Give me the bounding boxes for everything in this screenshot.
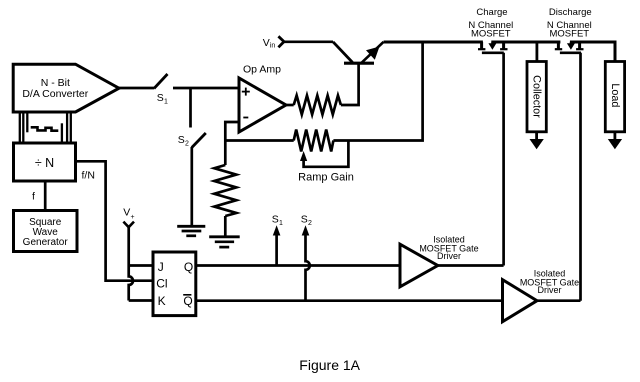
wire to J input — [129, 264, 153, 267]
svg-text:Discharge: Discharge — [549, 7, 592, 18]
transistor Q1 — [333, 42, 384, 63]
wire from rail down to load box — [614, 41, 617, 62]
wire from Vin to transistor — [284, 40, 333, 43]
svg-text:÷ N: ÷ N — [35, 156, 54, 170]
control arrow S1 — [272, 213, 283, 265]
ground below R1 — [209, 237, 240, 247]
wire from S2 to ground — [190, 147, 193, 226]
wire from op-amp inverting input down to resistor node — [225, 122, 239, 165]
wire to K input — [129, 299, 153, 302]
svg-text:MOSFET: MOSFET — [550, 29, 590, 40]
svg-text:K: K — [158, 294, 166, 308]
svg-text:Cl: Cl — [156, 277, 167, 291]
bus wires between D/A converter and divider — [20, 112, 71, 143]
svg-text:Load: Load — [609, 83, 621, 107]
wire from S1 to op-amp non-inverting input — [173, 87, 239, 90]
isolated MOSFET gate driver 1 — [400, 235, 479, 287]
wire from Q output to gate driver 1 — [196, 264, 400, 267]
svg-text:Driver: Driver — [437, 251, 461, 261]
resistor R2 — [294, 96, 341, 115]
wire from Q-bar output to gate driver 2 — [196, 299, 503, 302]
svg-text:Figure 1A: Figure 1A — [299, 357, 360, 373]
collector box — [527, 62, 546, 132]
switch S2 — [178, 133, 206, 148]
label charge N channel MOSFET — [468, 7, 513, 39]
label discharge N channel MOSFET — [547, 7, 592, 39]
square wave generator block — [14, 211, 78, 252]
svg-text:f: f — [32, 191, 35, 203]
JK flip-flop U3 — [153, 252, 196, 316]
wire from rail down to collector box — [536, 42, 539, 62]
svg-text:Q: Q — [183, 294, 192, 308]
ground arrow below load — [608, 132, 622, 149]
V+ input connector — [123, 222, 134, 228]
divider block divide-by-N — [14, 143, 76, 181]
wire from V+ down to J and K inputs with hop over clock wire — [129, 227, 133, 301]
wire from R2 to transistor base — [341, 65, 359, 106]
wire from node to switch S2 — [189, 88, 192, 128]
svg-text:1: 1 — [279, 220, 283, 227]
charge MOSFET M1 — [478, 42, 508, 53]
Vin input connector chevron — [278, 36, 284, 47]
top rail from discharge MOSFET to load — [570, 41, 615, 44]
wire from discharge MOSFET gate down to driver 2 output — [579, 53, 582, 301]
svg-text:Op Amp: Op Amp — [243, 64, 281, 76]
svg-text:N - Bit: N - Bit — [41, 77, 70, 89]
top rail from transistor to charge MOSFET — [384, 41, 483, 44]
svg-text:in: in — [270, 43, 276, 50]
bus continuation squiggle — [31, 127, 59, 130]
svg-text:S: S — [272, 213, 279, 225]
svg-text:Generator: Generator — [23, 237, 69, 248]
svg-text:S: S — [301, 213, 308, 225]
D/A converter block U1 — [13, 64, 119, 112]
load box — [605, 62, 624, 132]
wire from driver 1 output to charge gate line — [438, 264, 504, 267]
switch S1 — [154, 74, 168, 105]
ground arrow below collector — [530, 132, 544, 149]
svg-text:f/N: f/N — [82, 170, 95, 182]
svg-text:J: J — [158, 260, 164, 274]
svg-text:S: S — [157, 92, 164, 104]
svg-text:V: V — [263, 37, 270, 49]
svg-text:S: S — [178, 134, 185, 146]
svg-text:+: + — [131, 214, 135, 221]
wire from R1 to ground — [224, 216, 227, 236]
svg-text:Q: Q — [184, 260, 193, 274]
top rail between MOSFETs — [491, 41, 560, 44]
svg-text:V: V — [123, 206, 130, 218]
svg-text:2: 2 — [185, 141, 189, 148]
wire f/N from divider to flip-flop clock — [76, 161, 154, 280]
potentiometer ramp gain — [294, 130, 354, 184]
wire from D/A output to switch S1 — [119, 87, 154, 90]
label V+ — [123, 206, 134, 221]
svg-text:2: 2 — [308, 220, 312, 227]
Vin label — [263, 37, 276, 50]
svg-text:MOSFET: MOSFET — [471, 29, 511, 40]
wire from inverting node to ramp gain potentiometer — [225, 139, 293, 142]
ground below S2 — [177, 226, 205, 236]
wire from charge MOSFET gate down to driver 1 output — [502, 53, 505, 266]
wire feedback from ramp gain to output rail — [333, 44, 422, 141]
svg-text:D/A Converter: D/A Converter — [22, 88, 88, 100]
isolated MOSFET gate driver 2 — [503, 269, 580, 322]
wire from op-amp output to resistor R2 — [286, 104, 294, 107]
svg-text:Charge: Charge — [476, 7, 507, 18]
svg-text:Driver: Driver — [538, 285, 562, 295]
wire f from generator to divider — [44, 181, 47, 211]
svg-text:1: 1 — [164, 98, 168, 105]
svg-text:Ramp Gain: Ramp Gain — [298, 171, 354, 183]
discharge MOSFET M2 — [555, 42, 584, 53]
svg-text:Collector: Collector — [531, 75, 543, 118]
wire from driver 2 output to discharge gate line — [537, 299, 581, 302]
resistor R1 to ground — [214, 165, 236, 216]
control arrow S2 with hop over Q wire — [301, 213, 312, 300]
op-amp U2 — [239, 64, 286, 133]
